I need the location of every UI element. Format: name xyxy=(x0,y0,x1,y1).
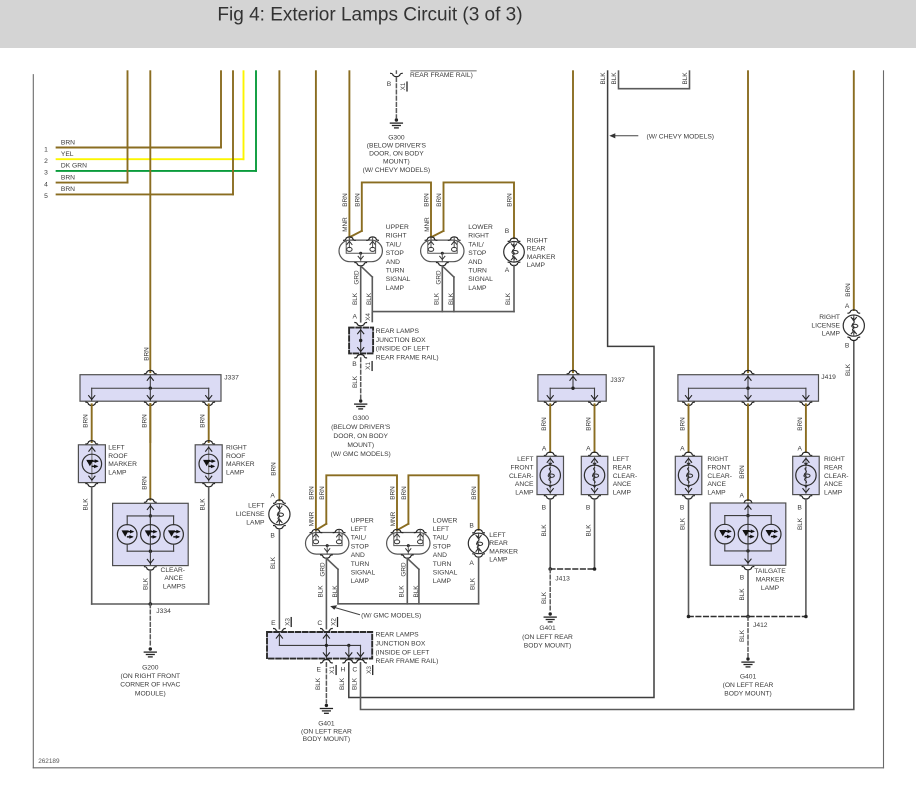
svg-text:GRD: GRD xyxy=(435,270,442,285)
svg-text:BLK: BLK xyxy=(434,292,441,305)
svg-text:BRN: BRN xyxy=(270,462,277,476)
svg-text:A: A xyxy=(542,446,547,453)
svg-text:A: A xyxy=(740,493,745,500)
svg-text:DOOR, ON BODY: DOOR, ON BODY xyxy=(333,433,388,440)
svg-text:RIGHT: RIGHT xyxy=(386,233,407,240)
svg-text:B: B xyxy=(586,505,591,512)
svg-text:A: A xyxy=(798,446,803,453)
svg-text:DOOR, ON BODY: DOOR, ON BODY xyxy=(369,151,424,158)
svg-text:B: B xyxy=(505,228,510,235)
svg-text:TURN: TURN xyxy=(351,561,370,568)
svg-text:LAMP: LAMP xyxy=(386,285,405,292)
svg-text:(W/ GMC MODELS): (W/ GMC MODELS) xyxy=(331,451,391,458)
svg-text:J337: J337 xyxy=(224,374,239,381)
svg-text:B: B xyxy=(270,533,275,540)
svg-text:(INSIDE OF LEFT: (INSIDE OF LEFT xyxy=(376,346,430,353)
svg-text:E: E xyxy=(317,667,322,674)
svg-text:X4: X4 xyxy=(365,313,372,321)
svg-text:STOP: STOP xyxy=(386,250,405,257)
svg-text:JUNCTION BOX: JUNCTION BOX xyxy=(376,337,426,344)
svg-text:(BELOW DRIVER'S: (BELOW DRIVER'S xyxy=(331,424,391,431)
svg-text:ANCE: ANCE xyxy=(515,481,534,488)
svg-text:G401: G401 xyxy=(740,674,757,681)
svg-text:UPPER: UPPER xyxy=(351,517,374,524)
svg-text:BLK: BLK xyxy=(739,629,746,642)
svg-text:MARKER: MARKER xyxy=(108,461,137,468)
svg-text:BLK: BLK xyxy=(200,498,207,511)
svg-text:CORNER OF HVAC: CORNER OF HVAC xyxy=(120,682,180,689)
svg-text:X1: X1 xyxy=(329,666,336,674)
svg-text:G401: G401 xyxy=(539,625,556,632)
svg-text:SIGNAL: SIGNAL xyxy=(433,570,458,577)
svg-text:BRN: BRN xyxy=(354,193,361,207)
svg-text:BRN: BRN xyxy=(586,417,593,431)
svg-text:RIGHT: RIGHT xyxy=(824,456,845,463)
svg-text:REAR: REAR xyxy=(824,465,843,472)
svg-text:MARKER: MARKER xyxy=(527,254,556,261)
svg-text:(W/ CHEVY MODELS): (W/ CHEVY MODELS) xyxy=(647,133,715,140)
svg-text:ANCE: ANCE xyxy=(613,481,632,488)
svg-text:STOP: STOP xyxy=(433,543,452,550)
svg-text:C: C xyxy=(317,620,322,627)
svg-text:LAMP: LAMP xyxy=(822,331,841,338)
svg-text:(ON RIGHT FRONT: (ON RIGHT FRONT xyxy=(120,673,180,680)
svg-text:LAMP: LAMP xyxy=(468,285,487,292)
svg-text:BRN: BRN xyxy=(507,193,514,207)
svg-text:X2: X2 xyxy=(331,618,338,626)
svg-text:BLK: BLK xyxy=(399,585,406,598)
svg-text:BRN: BRN xyxy=(739,465,746,479)
svg-text:BRN: BRN xyxy=(845,283,852,297)
svg-text:BLK: BLK xyxy=(797,517,804,530)
svg-text:BRN: BRN xyxy=(200,414,207,428)
svg-text:2: 2 xyxy=(44,158,48,165)
svg-text:(INSIDE OF LEFT: (INSIDE OF LEFT xyxy=(376,649,430,656)
svg-text:J413: J413 xyxy=(555,576,570,583)
svg-text:LEFT: LEFT xyxy=(108,445,124,452)
svg-text:J334: J334 xyxy=(156,608,171,615)
svg-text:X3: X3 xyxy=(366,666,373,674)
svg-text:LAMP: LAMP xyxy=(108,469,127,476)
svg-text:B: B xyxy=(845,343,850,350)
svg-text:BRN: BRN xyxy=(680,417,687,431)
svg-text:UPPER: UPPER xyxy=(386,224,409,231)
svg-text:BLK: BLK xyxy=(270,556,277,569)
svg-text:G401: G401 xyxy=(318,721,335,728)
svg-text:TAIL/: TAIL/ xyxy=(386,241,402,248)
svg-text:BLK: BLK xyxy=(586,524,593,537)
svg-text:ANCE: ANCE xyxy=(707,481,726,488)
svg-text:5: 5 xyxy=(44,193,48,200)
svg-text:A: A xyxy=(505,267,510,274)
svg-text:ROOF: ROOF xyxy=(108,453,127,460)
svg-text:TAILGATE: TAILGATE xyxy=(754,568,786,575)
svg-text:GRD: GRD xyxy=(354,270,361,285)
svg-text:RIGHT: RIGHT xyxy=(527,238,548,245)
svg-text:RIGHT: RIGHT xyxy=(226,445,247,452)
svg-text:LAMP: LAMP xyxy=(515,489,534,496)
svg-text:MARKER: MARKER xyxy=(756,576,785,583)
svg-text:TURN: TURN xyxy=(468,268,487,275)
svg-text:JUNCTION BOX: JUNCTION BOX xyxy=(376,640,426,647)
svg-text:BLK: BLK xyxy=(142,577,149,590)
svg-text:AND: AND xyxy=(433,552,447,559)
svg-text:BRN: BRN xyxy=(424,193,431,207)
svg-text:3: 3 xyxy=(44,170,48,177)
svg-text:B: B xyxy=(469,523,474,530)
svg-text:(W/ GMC MODELS): (W/ GMC MODELS) xyxy=(361,613,421,620)
svg-text:TAIL/: TAIL/ xyxy=(433,535,449,542)
svg-text:LOWER: LOWER xyxy=(468,224,493,231)
svg-text:LEFT: LEFT xyxy=(433,526,449,533)
svg-text:FRONT: FRONT xyxy=(510,465,533,472)
svg-text:262189: 262189 xyxy=(38,758,60,765)
svg-text:GRD: GRD xyxy=(319,562,326,577)
svg-text:BLK: BLK xyxy=(352,292,359,305)
svg-text:REAR FRAME RAIL): REAR FRAME RAIL) xyxy=(376,658,439,665)
svg-text:TAIL/: TAIL/ xyxy=(468,241,484,248)
svg-text:BRN: BRN xyxy=(143,347,150,361)
svg-text:BLK: BLK xyxy=(352,375,359,388)
svg-text:BLK: BLK xyxy=(470,577,477,590)
svg-text:H: H xyxy=(340,667,345,674)
svg-text:B: B xyxy=(387,81,392,88)
svg-text:X3: X3 xyxy=(284,618,291,626)
svg-text:BLK: BLK xyxy=(339,677,346,690)
svg-text:LAMP: LAMP xyxy=(433,578,452,585)
svg-text:BLK: BLK xyxy=(611,72,618,85)
svg-text:ANCE: ANCE xyxy=(824,481,843,488)
svg-text:BLK: BLK xyxy=(541,524,548,537)
svg-text:LEFT: LEFT xyxy=(351,526,367,533)
svg-text:B: B xyxy=(542,505,547,512)
svg-text:LICENSE: LICENSE xyxy=(811,322,840,329)
svg-text:LEFT: LEFT xyxy=(489,532,505,539)
svg-text:BLK: BLK xyxy=(541,591,548,604)
svg-text:A: A xyxy=(680,446,685,453)
svg-text:B: B xyxy=(352,361,357,368)
svg-text:BRN: BRN xyxy=(83,414,90,428)
svg-text:RIGHT: RIGHT xyxy=(707,456,728,463)
svg-text:CLEAR-: CLEAR- xyxy=(613,473,638,480)
svg-text:BLK: BLK xyxy=(83,498,90,511)
svg-text:REAR LAMPS: REAR LAMPS xyxy=(376,632,420,639)
svg-text:TAIL/: TAIL/ xyxy=(351,535,367,542)
svg-text:LAMP: LAMP xyxy=(707,489,726,496)
svg-text:BRN: BRN xyxy=(390,486,397,500)
svg-text:J337: J337 xyxy=(610,377,625,384)
svg-text:LAMP: LAMP xyxy=(824,489,843,496)
svg-text:(ON LEFT REAR: (ON LEFT REAR xyxy=(723,682,774,689)
svg-text:BRN: BRN xyxy=(141,414,148,428)
svg-text:REAR LAMPS: REAR LAMPS xyxy=(376,328,420,335)
svg-text:G200: G200 xyxy=(142,664,159,671)
svg-text:SIGNAL: SIGNAL xyxy=(468,276,493,283)
svg-text:REAR: REAR xyxy=(527,246,546,253)
svg-text:TURN: TURN xyxy=(433,561,452,568)
svg-text:AND: AND xyxy=(351,552,365,559)
svg-text:CLEAR-: CLEAR- xyxy=(509,473,534,480)
svg-text:MNR: MNR xyxy=(309,511,316,526)
svg-text:BRN: BRN xyxy=(342,193,349,207)
svg-text:BODY MOUNT): BODY MOUNT) xyxy=(303,736,350,743)
svg-text:BRN: BRN xyxy=(471,486,478,500)
svg-text:BLK: BLK xyxy=(680,517,687,530)
svg-text:CLEAR-: CLEAR- xyxy=(824,473,849,480)
svg-text:BODY MOUNT): BODY MOUNT) xyxy=(524,643,571,650)
svg-text:G300: G300 xyxy=(388,134,405,141)
svg-text:REAR: REAR xyxy=(489,540,508,547)
svg-text:LAMP: LAMP xyxy=(527,262,546,269)
svg-text:MODULE): MODULE) xyxy=(135,690,166,697)
svg-text:BRN: BRN xyxy=(319,486,326,500)
svg-text:LAMP: LAMP xyxy=(761,585,780,592)
svg-text:B: B xyxy=(740,575,745,582)
svg-text:LICENSE: LICENSE xyxy=(236,511,265,518)
svg-text:RIGHT: RIGHT xyxy=(819,314,840,321)
svg-text:BRN: BRN xyxy=(61,186,75,193)
svg-text:A: A xyxy=(353,314,358,321)
svg-text:BRN: BRN xyxy=(141,476,148,490)
svg-text:LOWER: LOWER xyxy=(433,517,458,524)
svg-text:BRN: BRN xyxy=(61,174,75,181)
svg-text:MNR: MNR xyxy=(390,511,397,526)
svg-text:G300: G300 xyxy=(353,415,370,422)
svg-text:BLK: BLK xyxy=(600,72,607,85)
svg-text:ANCE: ANCE xyxy=(164,575,183,582)
svg-text:BLK: BLK xyxy=(318,585,325,598)
svg-text:LEFT: LEFT xyxy=(248,503,264,510)
svg-text:(BELOW DRIVER'S: (BELOW DRIVER'S xyxy=(367,143,427,150)
svg-text:A: A xyxy=(270,493,275,500)
svg-text:STOP: STOP xyxy=(351,543,370,550)
svg-text:GRD: GRD xyxy=(400,562,407,577)
svg-text:FRONT: FRONT xyxy=(707,465,730,472)
svg-text:AND: AND xyxy=(468,259,482,266)
svg-text:BLK: BLK xyxy=(682,72,689,85)
svg-text:YEL: YEL xyxy=(61,151,74,158)
svg-text:BRN: BRN xyxy=(61,139,75,146)
svg-text:DK GRN: DK GRN xyxy=(61,163,87,170)
svg-text:(ON LEFT REAR: (ON LEFT REAR xyxy=(522,634,573,641)
svg-text:MOUNT): MOUNT) xyxy=(347,442,374,449)
svg-text:LAMP: LAMP xyxy=(351,578,370,585)
svg-text:J412: J412 xyxy=(753,622,768,629)
svg-text:LAMP: LAMP xyxy=(489,557,508,564)
svg-text:C: C xyxy=(352,667,357,674)
svg-text:LAMP: LAMP xyxy=(226,469,245,476)
svg-text:MARKER: MARKER xyxy=(226,461,255,468)
svg-text:CLEAR-: CLEAR- xyxy=(707,473,732,480)
svg-text:X1: X1 xyxy=(365,362,372,370)
svg-text:A: A xyxy=(469,560,474,567)
svg-text:E: E xyxy=(271,620,276,627)
svg-text:B: B xyxy=(680,505,685,512)
svg-text:MNR: MNR xyxy=(424,217,431,232)
svg-text:LAMP: LAMP xyxy=(613,489,632,496)
svg-text:A: A xyxy=(845,303,850,310)
svg-text:BLK: BLK xyxy=(351,677,358,690)
svg-text:BODY MOUNT): BODY MOUNT) xyxy=(724,691,771,698)
svg-text:BRN: BRN xyxy=(436,193,443,207)
svg-text:ROOF: ROOF xyxy=(226,453,245,460)
svg-text:MARKER: MARKER xyxy=(489,548,518,555)
svg-text:BLK: BLK xyxy=(845,363,852,376)
svg-text:BRN: BRN xyxy=(308,486,315,500)
svg-text:TURN: TURN xyxy=(386,268,405,275)
svg-text:BRN: BRN xyxy=(797,417,804,431)
svg-text:Fig 4: Exterior Lamps Circuit: Fig 4: Exterior Lamps Circuit (3 of 3) xyxy=(217,5,522,26)
svg-text:BLK: BLK xyxy=(505,292,512,305)
svg-text:4: 4 xyxy=(44,181,48,188)
svg-text:BRN: BRN xyxy=(541,417,548,431)
svg-text:RIGHT: RIGHT xyxy=(468,233,489,240)
svg-text:LEFT: LEFT xyxy=(613,456,629,463)
svg-text:1: 1 xyxy=(44,146,48,153)
svg-text:BLK: BLK xyxy=(315,677,322,690)
svg-text:AND: AND xyxy=(386,259,400,266)
svg-text:STOP: STOP xyxy=(468,250,487,257)
svg-text:LAMPS: LAMPS xyxy=(163,583,186,590)
svg-text:B: B xyxy=(797,505,802,512)
svg-text:BRN: BRN xyxy=(401,486,408,500)
svg-text:REAR FRAME RAIL): REAR FRAME RAIL) xyxy=(410,72,473,79)
svg-text:LAMP: LAMP xyxy=(246,519,265,526)
svg-text:SIGNAL: SIGNAL xyxy=(351,570,376,577)
svg-text:BLK: BLK xyxy=(739,588,746,601)
svg-text:REAR FRAME RAIL): REAR FRAME RAIL) xyxy=(376,354,439,361)
svg-text:(W/ CHEVY MODELS): (W/ CHEVY MODELS) xyxy=(363,167,431,174)
svg-text:LEFT: LEFT xyxy=(517,456,533,463)
svg-text:MOUNT): MOUNT) xyxy=(383,159,410,166)
svg-text:SIGNAL: SIGNAL xyxy=(386,276,411,283)
svg-text:(ON LEFT REAR: (ON LEFT REAR xyxy=(301,728,352,735)
svg-text:J419: J419 xyxy=(821,374,836,381)
svg-text:MNR: MNR xyxy=(342,217,349,232)
svg-text:X1: X1 xyxy=(400,82,407,90)
svg-text:REAR: REAR xyxy=(613,465,632,472)
svg-text:A: A xyxy=(586,446,591,453)
svg-text:CLEAR-: CLEAR- xyxy=(161,567,186,574)
